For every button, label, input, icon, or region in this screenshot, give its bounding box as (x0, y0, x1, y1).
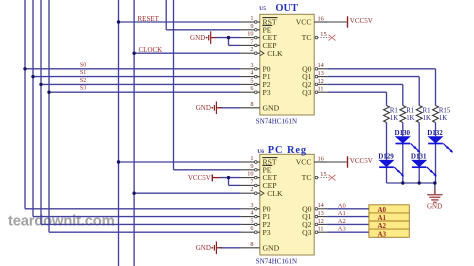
svg-text:VCC5V: VCC5V (350, 157, 373, 165)
svg-text:teardownit.com: teardownit.com (8, 213, 115, 229)
wire S1 to U6 pin4 (33, 216, 241, 218)
U5 pin 3 P0 (241, 62, 271, 74)
svg-text:8: 8 (250, 241, 253, 248)
svg-text:3: 3 (250, 62, 253, 69)
svg-text:3: 3 (250, 202, 253, 209)
wire net S3 vertical (48, 0, 50, 232)
junction S3 (47, 91, 50, 94)
svg-text:RESET: RESET (138, 15, 160, 23)
U5 pin 11 Q3 (302, 86, 327, 97)
svg-text:A1: A1 (338, 210, 346, 217)
U6 pin 14 Q0 (302, 202, 327, 213)
wire S3 to U6 pin6 (49, 231, 241, 233)
junction U6 CET-CEP (227, 176, 230, 179)
net label A0 (338, 202, 346, 209)
svg-text:SN74HC161N: SN74HC161N (256, 118, 297, 126)
U5 pin 14 Q0 (302, 62, 327, 73)
IC U6 SN74HC161N body (260, 154, 314, 255)
svg-text:S1: S1 (80, 70, 86, 76)
svg-text:S3: S3 (80, 86, 86, 92)
svg-text:A3: A3 (338, 226, 346, 233)
svg-text:A0: A0 (378, 206, 387, 214)
U6 pin 8 GND (241, 241, 280, 253)
svg-text:8: 8 (250, 101, 253, 108)
svg-text:TC: TC (302, 33, 312, 42)
net label CLOCK (139, 46, 163, 54)
svg-text:14: 14 (318, 62, 325, 69)
svg-text:SN74HC161N: SN74HC161N (256, 258, 297, 266)
svg-text:CLK: CLK (267, 189, 283, 198)
svg-text:VCC5V: VCC5V (350, 17, 373, 25)
wire Q0 down to R15 (435, 69, 437, 106)
U6 pin 9 PE (241, 163, 273, 175)
power port VCC5V at U6 CET/CEP (188, 174, 220, 182)
U6 pin 12 Q2 (302, 218, 327, 229)
svg-text:D131: D131 (411, 153, 427, 161)
wire jog down to U5 pin7 (228, 38, 230, 46)
wire net S1 vertical (32, 0, 34, 217)
power port GND at U6 GND pin (196, 242, 222, 255)
svg-text:D129: D129 (378, 153, 394, 161)
net label S0 (80, 62, 86, 68)
U6 pin 10 CET (241, 171, 278, 183)
svg-text:PC Reg: PC Reg (268, 145, 307, 156)
wire S2 to U5 pin5 (41, 83, 241, 85)
U6 pin 5 P2 (241, 217, 271, 229)
svg-text:P3: P3 (263, 88, 271, 97)
svg-text:D132: D132 (427, 129, 443, 137)
wire to U5 pin7 CEP (229, 44, 241, 46)
wire R15 to D132 (435, 123, 437, 137)
wire S2 to U6 pin5 (41, 223, 241, 225)
svg-text:U6: U6 (257, 149, 264, 155)
svg-text:16: 16 (318, 155, 324, 162)
svg-text:GND: GND (263, 103, 280, 112)
svg-text:1: 1 (250, 15, 253, 22)
U6 pin 6 P3 (241, 225, 271, 237)
junction RESET-U5 (117, 20, 120, 23)
U5 pin 16 VCC (296, 15, 328, 26)
svg-text:R15: R15 (439, 107, 451, 114)
svg-text:VCC: VCC (296, 18, 312, 27)
U5 pin 1 RST (241, 15, 278, 27)
junction rail GND (433, 181, 436, 184)
resistor R13 1K (400, 106, 415, 123)
wire Q3 U6 net A3 (327, 231, 369, 233)
U5 pin 10 CET (241, 31, 278, 43)
svg-text:A2: A2 (378, 222, 387, 230)
svg-text:6: 6 (250, 225, 253, 232)
svg-text:1: 1 (250, 155, 253, 162)
svg-text:10: 10 (247, 171, 253, 178)
svg-text:14: 14 (318, 202, 325, 209)
wire D129 to rail (386, 167, 388, 183)
svg-text:CLK: CLK (267, 49, 283, 58)
wire Q3 U5 horizontal (327, 91, 386, 93)
wire D130 to rail (402, 144, 404, 183)
wire Q0 U5 horizontal (327, 68, 435, 70)
wire LED cathode rail (387, 182, 436, 184)
wire RESET to U5 pin1 (119, 21, 241, 23)
svg-text:9: 9 (250, 23, 253, 30)
svg-text:7: 7 (250, 38, 253, 45)
net label RESET (138, 15, 160, 23)
U5 pin 8 GND (241, 101, 280, 113)
resistor R12 1K (384, 106, 399, 123)
U5 pin 6 P3 (241, 85, 271, 97)
power port VCC5V at U6 VCC (327, 156, 373, 167)
wire VCC5V to U6 pin10 (220, 177, 241, 179)
U5 pin 12 Q2 (302, 78, 327, 89)
svg-text:1K: 1K (406, 115, 414, 122)
junction S0 (23, 67, 26, 70)
svg-text:U5: U5 (259, 6, 266, 12)
LED D130 (395, 129, 421, 153)
wire U5 PE vertical (165, 0, 167, 30)
IC U5 SN74HC161N body (260, 14, 314, 115)
junction RESET-U6 (117, 160, 120, 163)
U5 pin 15 TC no-connect (302, 31, 336, 42)
wire to U6 pin9 PE (174, 169, 241, 171)
LED D129 (378, 153, 404, 177)
svg-text:12: 12 (318, 78, 324, 85)
svg-text:TC: TC (302, 173, 312, 182)
LED D131 (411, 153, 437, 177)
wire Q3 down to R12 (386, 92, 388, 105)
power port VCC5V at U5 VCC (327, 16, 373, 27)
wire R14 to D131 (418, 123, 420, 160)
U5 pin 9 PE (241, 23, 273, 35)
designator U5 (259, 6, 266, 12)
resistor R14 1K (416, 106, 431, 123)
junction U5 CET-CEP (227, 36, 230, 39)
wire jog down to U6 pin7 (228, 178, 230, 186)
U5 pin 2 CLK (241, 46, 283, 58)
svg-text:S2: S2 (80, 78, 86, 84)
wire Q2 U6 net A2 (327, 223, 369, 225)
svg-text:11: 11 (318, 226, 324, 233)
svg-text:9: 9 (250, 163, 253, 170)
part number label U6 (256, 258, 297, 266)
LED D132 (427, 129, 453, 153)
svg-text:16: 16 (318, 15, 324, 22)
wire Q0 U6 net A0 (327, 208, 369, 210)
wire net RESET vertical (118, 0, 120, 266)
wire D132 to rail (435, 144, 437, 183)
U6 pin 4 P1 (241, 210, 271, 222)
U6 pin 11 Q3 (302, 226, 327, 237)
svg-text:2: 2 (250, 46, 253, 53)
U5 pin 13 Q1 (302, 70, 327, 81)
svg-text:15: 15 (320, 171, 326, 178)
svg-text:VCC: VCC (296, 158, 312, 167)
U6 pin 16 VCC (296, 155, 328, 166)
wire Q2 down to R13 (402, 84, 404, 105)
U6 pin 1 RST (241, 155, 278, 167)
svg-text:D130: D130 (395, 129, 411, 137)
wire RESET to U6 pin1 (119, 161, 241, 163)
title OUT (275, 3, 298, 14)
wire D131 to rail (418, 167, 420, 183)
resistor R15 1K (433, 106, 451, 123)
svg-text:2: 2 (250, 186, 253, 193)
junction S2 (39, 83, 42, 86)
net label A1 (338, 210, 346, 217)
svg-text:12: 12 (318, 218, 324, 225)
wire GND to U5 pin10 (216, 37, 241, 39)
net label S2 (80, 78, 86, 84)
U6 pin 7 CEP (241, 178, 277, 190)
svg-text:GND: GND (190, 34, 205, 42)
net label S3 (80, 86, 86, 92)
svg-text:R1: R1 (406, 107, 414, 114)
wire S0 to U5 pin3 (25, 68, 241, 70)
wire Q2 U5 horizontal (327, 83, 403, 85)
junction CLOCK-U5 (132, 52, 135, 55)
svg-text:GND: GND (427, 203, 442, 211)
svg-text:15: 15 (320, 31, 326, 38)
wire Q1 U6 net A1 (327, 216, 369, 218)
svg-text:13: 13 (318, 70, 324, 77)
svg-text:OUT: OUT (275, 3, 298, 14)
watermark teardownit.com (8, 213, 115, 229)
wire net CLOCK vertical (133, 0, 135, 266)
svg-text:10: 10 (247, 31, 253, 38)
wire R12 to D129 (386, 123, 388, 160)
U5 pin 7 CEP (241, 38, 277, 50)
svg-text:P3: P3 (263, 228, 271, 237)
wire GND to U6 pin8 (220, 247, 241, 249)
wire S3 to U5 pin6 (49, 91, 241, 93)
svg-text:CLOCK: CLOCK (139, 46, 163, 54)
svg-text:GND: GND (196, 244, 211, 252)
wire to U6 pin7 CEP (229, 184, 241, 186)
wire S1 to U5 pin4 (33, 76, 241, 78)
U6 pin 2 CLK (241, 186, 283, 198)
wire Q1 U5 horizontal (327, 76, 419, 78)
wire CLOCK to U6 pin2 (134, 192, 241, 194)
svg-text:1K: 1K (423, 115, 431, 122)
net label S1 (80, 70, 86, 76)
svg-text:5: 5 (250, 77, 253, 84)
wire rail to ground (434, 183, 436, 194)
svg-text:R1: R1 (390, 107, 398, 114)
svg-text:11: 11 (318, 86, 324, 93)
junction rail D131 (418, 181, 421, 184)
svg-text:7: 7 (250, 178, 253, 185)
svg-text:A0: A0 (338, 202, 346, 209)
wire Q1 down to R14 (418, 77, 420, 106)
svg-text:13: 13 (318, 210, 324, 217)
svg-text:Q3: Q3 (302, 228, 312, 237)
wire net S2 vertical (40, 0, 42, 224)
junction rail D130 (401, 181, 404, 184)
designator U6 (257, 149, 264, 155)
title PC Reg (268, 145, 307, 156)
U6 pin 3 P0 (241, 202, 271, 214)
junction CLOCK-U6 (132, 192, 135, 195)
U5 pin 4 P1 (241, 70, 271, 82)
svg-text:6: 6 (250, 85, 253, 92)
wire to U5 pin9 PE (166, 29, 240, 31)
wire CLOCK to U5 pin2 (134, 52, 241, 54)
svg-text:A2: A2 (338, 218, 346, 225)
svg-text:1K: 1K (390, 115, 398, 122)
svg-text:S0: S0 (80, 62, 86, 68)
wire net S0 vertical (24, 0, 26, 209)
svg-text:GND: GND (196, 104, 211, 112)
svg-text:VCC5V: VCC5V (188, 174, 211, 182)
U5 pin 5 P2 (241, 77, 271, 89)
wire R13 to D130 (402, 123, 404, 137)
U6 pin 15 TC no-connect (302, 171, 336, 182)
svg-text:Q3: Q3 (302, 88, 312, 97)
svg-text:R1: R1 (423, 107, 431, 114)
svg-text:1K: 1K (439, 115, 447, 122)
net label A3 (338, 226, 346, 233)
power port GND at U5 GND pin (196, 102, 222, 115)
svg-text:5: 5 (250, 217, 253, 224)
wire U6 PE vertical (173, 0, 175, 170)
junction S1 (31, 75, 34, 78)
svg-text:A3: A3 (378, 230, 387, 238)
U6 pin 13 Q1 (302, 210, 327, 221)
net label A2 (338, 218, 346, 225)
ground symbol GND below LEDs (427, 189, 443, 211)
wire GND to U5 pin8 (220, 107, 241, 109)
wire S0 to U6 pin3 (25, 208, 241, 210)
power port GND at U5 CET/CEP (190, 31, 216, 44)
part number label U5 (256, 118, 297, 126)
svg-text:A1: A1 (378, 214, 387, 222)
svg-text:GND: GND (263, 243, 280, 252)
connector port A0-A3 (369, 205, 409, 239)
